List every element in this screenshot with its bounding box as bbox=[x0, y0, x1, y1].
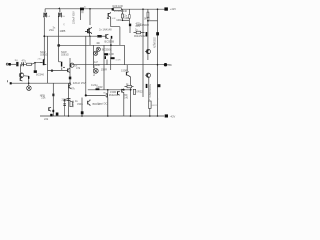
wire input line bbox=[10, 63, 16, 65]
wire H y20.8 bbox=[148, 20, 158, 22]
transistor bd139 bbox=[88, 100, 90, 107]
transistor circle VAS low bbox=[93, 68, 98, 73]
wire x82 low bbox=[81, 98, 83, 117]
dark heatsink bar bbox=[146, 32, 148, 37]
junction LTP line bbox=[51, 70, 53, 72]
transistor x69 mid bbox=[68, 68, 70, 72]
svg-text:MJE15032: MJE15032 bbox=[137, 23, 150, 27]
svg-text:0R22: 0R22 bbox=[136, 89, 143, 93]
resistor H2 dark bbox=[97, 35, 101, 38]
dark bar vas below bbox=[105, 56, 106, 59]
wire x58.6 driver bbox=[59, 45, 61, 62]
dark blob diode x70 bbox=[69, 77, 72, 80]
wire H9 bbox=[88, 89, 132, 91]
svg-text:22k: 22k bbox=[41, 96, 46, 100]
wire H3 rail bbox=[59, 44, 125, 46]
wire output tail bbox=[166, 64, 171, 66]
wire vertical right bus x157.5 bbox=[157, 9, 159, 116]
wire stub r122 bbox=[121, 9, 123, 14]
transistor nfb x49 bbox=[49, 107, 51, 111]
wire x149 driver chain bbox=[148, 77, 150, 101]
wire x70 mid bbox=[69, 58, 71, 83]
resistor rail 10R bbox=[113, 8, 121, 11]
dark marks x53 low bbox=[52, 110, 54, 112]
wire top rail right bbox=[121, 8, 165, 10]
svg-text:220uF 63V: 220uF 63V bbox=[72, 11, 76, 24]
svg-text:2SC: 2SC bbox=[38, 59, 43, 61]
wire drop x35 bbox=[34, 63, 36, 71]
svg-text:150R: 150R bbox=[110, 90, 116, 94]
resistor input vert dark bbox=[16, 62, 18, 66]
wire input line2 bbox=[22, 63, 40, 65]
wire H y20.3 bbox=[122, 19, 129, 21]
wire stub r129 bbox=[128, 9, 130, 15]
wire vertical bus x47.5 bbox=[47, 36, 49, 83]
svg-text:2x 1N4148: 2x 1N4148 bbox=[99, 27, 112, 31]
diode marks above H3 bbox=[97, 42, 100, 43]
svg-text:o: o bbox=[149, 99, 151, 101]
dark tick emitter bbox=[28, 76, 29, 79]
svg-text:47k: 47k bbox=[71, 87, 76, 91]
capacitor near Q3 bbox=[107, 17, 108, 19]
wire x90 below Q bbox=[89, 31, 91, 37]
wire vertical x85.8 bbox=[85, 36, 87, 95]
wire r129 low bbox=[128, 18, 130, 23]
dark blob cap470 bbox=[129, 24, 131, 27]
svg-text:150R: 150R bbox=[121, 69, 127, 73]
dark bar bottom right bbox=[146, 84, 148, 88]
svg-text:0R22: 0R22 bbox=[152, 105, 158, 107]
svg-text:1085: 1085 bbox=[60, 29, 66, 33]
wire x68.5 low bbox=[68, 83, 70, 116]
svg-text:BD: BD bbox=[103, 93, 106, 95]
svg-text:220uF 25V: 220uF 25V bbox=[73, 81, 86, 85]
svg-text:2SA: 2SA bbox=[49, 28, 54, 32]
junction dot x123.8 H9 bbox=[123, 89, 125, 91]
resistor emitter 0R22 bbox=[149, 101, 152, 108]
svg-text:10R: 10R bbox=[109, 52, 114, 56]
svg-text:100uF: 100uF bbox=[71, 100, 75, 108]
transistor circle x96 bbox=[94, 51, 98, 55]
transistor x118 low bbox=[118, 91, 120, 95]
wire r122 low bbox=[121, 18, 123, 20]
dark rect input bbox=[34, 70, 37, 73]
svg-text:47k: 47k bbox=[76, 66, 81, 70]
svg-text:+42V: +42V bbox=[170, 7, 176, 11]
capacitor elec filled top bbox=[80, 8, 84, 11]
transistor input lower blob bbox=[20, 78, 22, 82]
svg-text:2x: 2x bbox=[84, 7, 87, 9]
ground symbol bbox=[27, 86, 32, 91]
svg-text:BC556B: BC556B bbox=[105, 39, 115, 43]
wire NFB vertical x53.3 bbox=[52, 83, 54, 116]
transistor QVAS top bbox=[106, 34, 109, 39]
gray mark below cap bbox=[81, 11, 83, 13]
dark end rail resistor bbox=[112, 8, 114, 10]
svg-text:10R: 10R bbox=[124, 16, 129, 20]
transistor Q1 bbox=[43, 13, 46, 18]
wire res leads x129 bbox=[125, 86, 134, 88]
transistor x106 MJE340 bbox=[106, 90, 108, 116]
svg-text:1u: 1u bbox=[15, 58, 18, 62]
wire vertical x104 bbox=[103, 45, 105, 89]
junction dark H3 start bbox=[58, 44, 60, 46]
transistor circle x98 bbox=[96, 47, 100, 51]
wire H2 right bbox=[102, 35, 106, 37]
svg-text:2x MJE340: 2x MJE340 bbox=[114, 9, 128, 13]
junction input dot bbox=[34, 62, 36, 64]
wire gnd stub bbox=[28, 83, 30, 86]
wire Q1 collector down bbox=[43, 17, 45, 36]
driver dark bar right bbox=[61, 62, 62, 67]
wire corner to Qbias bbox=[126, 65, 128, 72]
svg-text:o: o bbox=[157, 98, 159, 100]
wire x123.8 down bbox=[123, 93, 125, 116]
wire input ground line bbox=[11, 82, 71, 84]
svg-text:NJW0302G: NJW0302G bbox=[148, 84, 152, 97]
transistor input right x43 bbox=[40, 59, 47, 66]
svg-text:Out: Out bbox=[168, 63, 172, 67]
capacitor input bbox=[22, 62, 24, 66]
svg-text:1A: 1A bbox=[62, 15, 65, 18]
svg-text:-42V: -42V bbox=[170, 115, 176, 119]
transistor x70 low bbox=[69, 85, 71, 89]
svg-text:220u: 220u bbox=[62, 98, 68, 102]
wire vertical x130.5 bbox=[130, 77, 132, 116]
wire stub bar to line bbox=[106, 60, 108, 65]
wire below cap x80 bbox=[80, 10, 82, 20]
capacitor low mid bbox=[63, 104, 66, 106]
wire vertical x90 bbox=[89, 9, 91, 25]
wire rail corner to Q1 bbox=[44, 9, 46, 13]
wire cap470 down bbox=[129, 26, 131, 33]
wire x149.8 emitter res low bbox=[149, 108, 151, 116]
wire vertical x111 bbox=[110, 39, 112, 57]
resistor r129 bbox=[128, 15, 130, 19]
wire top rail left bbox=[45, 8, 113, 10]
svg-text:MJE15032: MJE15032 bbox=[134, 35, 146, 38]
wire x90 to H3 bbox=[89, 36, 91, 45]
svg-text:Uout DC: Uout DC bbox=[97, 102, 107, 106]
svg-text:0281G: 0281G bbox=[40, 52, 48, 56]
transistor Q3 top bbox=[108, 12, 110, 19]
dark rect x56 low bbox=[56, 113, 59, 116]
svg-text:100n: 100n bbox=[116, 18, 122, 22]
svg-text:22k: 22k bbox=[44, 117, 49, 121]
input terminal bbox=[6, 63, 10, 65]
wire resistor leads bbox=[134, 32, 145, 34]
svg-text:2x: 2x bbox=[63, 22, 65, 25]
svg-text:150R: 150R bbox=[101, 68, 107, 72]
dark bar h9 bbox=[96, 88, 100, 90]
wire Q2 leg down bbox=[58, 17, 60, 45]
wire dash to line bbox=[110, 59, 112, 64]
svg-text:2x: 2x bbox=[135, 28, 138, 31]
driver bar right foot bbox=[63, 66, 65, 68]
svg-text:0281G: 0281G bbox=[61, 52, 69, 56]
svg-text:NJW0302: NJW0302 bbox=[153, 37, 156, 49]
dark bar QVAS bbox=[111, 36, 113, 39]
dark square right bus bbox=[156, 32, 159, 35]
output big dot bbox=[164, 63, 167, 66]
dark tick x53.3 bbox=[53, 94, 55, 96]
svg-text:4n7/100R: 4n7/100R bbox=[93, 65, 96, 76]
wire Q3 down x110.7 bbox=[111, 19, 120, 45]
wire vertical x143 bbox=[142, 9, 144, 97]
wire stub below line bbox=[110, 65, 112, 70]
terminal square top right bbox=[164, 7, 168, 10]
resistor horiz x129 bbox=[127, 86, 132, 88]
transistor x122 bottom right bbox=[122, 89, 124, 93]
transistor input pair left bbox=[19, 73, 24, 78]
wire x148 low bbox=[147, 17, 149, 60]
dark square bottom right bbox=[157, 84, 160, 87]
svg-text:330p: 330p bbox=[77, 102, 83, 106]
wire LTP out to driver bbox=[48, 70, 68, 72]
dark dash x112 bbox=[110, 57, 114, 59]
svg-text:BC550C: BC550C bbox=[102, 47, 112, 51]
wire emitter drop x28.7 bbox=[24, 76, 29, 83]
transistor x127 bbox=[126, 72, 130, 77]
input dark blob bbox=[9, 63, 11, 66]
transistor Q2 bbox=[58, 9, 61, 18]
svg-text:R29 10R: R29 10R bbox=[113, 4, 123, 8]
transistor cluster x70 circle bbox=[70, 63, 74, 67]
dark blob gnd line left bbox=[10, 82, 12, 84]
resistor 0R22 bottom right bbox=[133, 89, 135, 94]
wire stub x148 bbox=[147, 9, 149, 12]
svg-text:10R: 10R bbox=[111, 18, 115, 20]
capacitor x68 bars bbox=[67, 99, 71, 101]
dark rect mid bbox=[104, 53, 108, 55]
wire x61.8 low bbox=[61, 68, 63, 71]
wire drop to input Q bbox=[20, 64, 22, 73]
svg-text:140: 140 bbox=[124, 98, 129, 100]
dark rect x82 low bbox=[81, 111, 84, 114]
wire bias-output line y64.7 bbox=[72, 64, 166, 66]
arrow on rail bbox=[58, 7, 60, 8]
wire bottom rail bbox=[40, 115, 164, 117]
resistor r122 bbox=[121, 14, 123, 18]
dark blob x51 rail bbox=[50, 114, 52, 117]
tick pair x64.6 upper bbox=[64, 99, 66, 101]
wire x64.6 bbox=[64, 99, 66, 116]
terminal square bottom right bbox=[165, 114, 168, 117]
svg-text:0R22: 0R22 bbox=[144, 17, 151, 21]
wire vertical x44 mid bbox=[43, 36, 45, 60]
svg-text:BC546: BC546 bbox=[36, 73, 44, 77]
resistor base right bbox=[136, 31, 140, 34]
svg-text:100R: 100R bbox=[115, 59, 121, 61]
transistor right x148 up bbox=[145, 49, 150, 53]
left gnd tick bbox=[7, 80, 9, 82]
wire H2 mirror rail bbox=[44, 35, 97, 37]
wire H9b bbox=[86, 94, 106, 96]
resistor nfb low bbox=[70, 102, 72, 107]
svg-text:1A: 1A bbox=[47, 15, 50, 18]
transistor blob x90 bbox=[89, 27, 92, 34]
wire vertical x124.5 bbox=[124, 45, 126, 64]
resistor input horiz bbox=[27, 63, 32, 65]
transistor Q mid x89 bbox=[85, 29, 90, 34]
wire vertical x93.5 bbox=[93, 45, 95, 68]
transistor right x148 low bbox=[145, 73, 150, 77]
junction dots bbox=[28, 8, 158, 117]
text labels bbox=[15, 4, 177, 121]
svg-text:100R: 100R bbox=[96, 85, 102, 89]
junction blob H9b bbox=[85, 94, 87, 96]
resistor r149 top bbox=[147, 12, 149, 17]
